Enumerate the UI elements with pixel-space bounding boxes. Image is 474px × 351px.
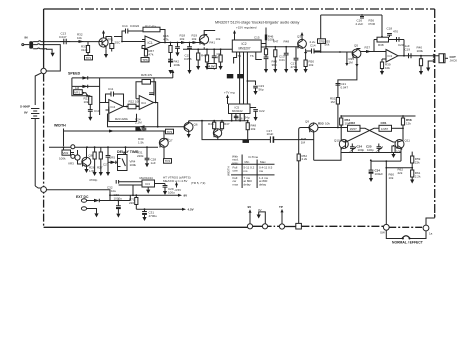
wire 9V rail xyxy=(110,195,178,200)
svg-text:SW: SW xyxy=(380,231,385,235)
svg-text:100k: 100k xyxy=(130,163,137,167)
resistor R57 xyxy=(393,145,395,146)
svg-text:1000u: 1000u xyxy=(114,196,123,200)
svg-text:CR2: CR2 xyxy=(349,121,355,125)
resistor R44 xyxy=(220,49,222,55)
resistor R35 pulldown xyxy=(346,52,348,56)
arrow width xyxy=(109,130,115,133)
svg-text:R23 220k: R23 220k xyxy=(115,117,128,121)
svg-text:1M: 1M xyxy=(331,100,336,104)
svg-text:27k: 27k xyxy=(164,137,169,141)
ground Q1 emitter xyxy=(105,49,107,54)
capacitor C44 xyxy=(106,147,111,174)
svg-text:R28 47k: R28 47k xyxy=(141,73,153,77)
resistor R38 box xyxy=(374,39,404,41)
node mix xyxy=(339,51,341,53)
svg-text:9V: 9V xyxy=(248,205,252,209)
pot VR4 box xyxy=(125,147,127,154)
resistor R58 xyxy=(402,116,404,118)
svg-text:C22: C22 xyxy=(259,109,265,113)
capacitor C41 xyxy=(212,49,217,66)
test point TP1 box xyxy=(85,56,93,60)
svg-text:2.2u: 2.2u xyxy=(310,40,316,44)
transistor Q10 xyxy=(339,140,348,149)
svg-text:4.5V: 4.5V xyxy=(188,208,194,212)
capacitor C27 xyxy=(119,182,142,185)
svg-text:100k: 100k xyxy=(174,63,181,67)
ground ext dc xyxy=(94,213,98,217)
capacitor C30 xyxy=(118,200,120,202)
transistor Q6 xyxy=(184,123,193,132)
emitter resistor R50 xyxy=(305,49,307,54)
IC2 MN3207 xyxy=(232,40,261,52)
wire emitter out xyxy=(306,50,312,52)
enclosure border left xyxy=(43,9,45,68)
svg-text:-4.5V: -4.5V xyxy=(174,188,181,192)
svg-text:S-006P: S-006P xyxy=(20,105,30,109)
ground R40 xyxy=(419,71,423,75)
svg-text:100k: 100k xyxy=(59,157,66,161)
bus delay bias xyxy=(49,146,136,148)
svg-text:R46: R46 xyxy=(208,122,214,126)
svg-text:IC3: IC3 xyxy=(145,182,150,186)
resistor R21 xyxy=(89,96,92,104)
power arrow IC5 xyxy=(227,97,229,104)
svg-text:WIDTH: WIDTH xyxy=(54,124,66,128)
node feedback junction xyxy=(320,51,322,53)
wire lfo out long xyxy=(108,114,185,127)
svg-text:2SC: 2SC xyxy=(115,41,122,45)
pin stub 1 xyxy=(234,52,237,64)
resistor R51 xyxy=(336,98,339,105)
enclosure border right xyxy=(434,9,436,218)
svg-text:1.5k: 1.5k xyxy=(89,169,95,173)
diode CR6 xyxy=(87,200,94,202)
svg-text:D-Time: D-Time xyxy=(249,155,259,159)
svg-text:100p: 100p xyxy=(358,148,365,152)
resistor R45a xyxy=(213,121,215,123)
svg-text:2.2k: 2.2k xyxy=(302,157,308,161)
svg-text:IN: IN xyxy=(25,36,28,40)
svg-text:390: 390 xyxy=(272,63,277,67)
capacitor C21 0.047 xyxy=(336,84,341,86)
svg-text:10u: 10u xyxy=(111,189,116,193)
capacitor C17b 2.2u xyxy=(312,49,321,54)
wire osc rail xyxy=(341,115,415,117)
ground Q8 xyxy=(84,169,88,173)
wire IC3 out xyxy=(155,183,166,185)
pin stub 7 xyxy=(256,52,262,60)
svg-text:1M: 1M xyxy=(349,60,354,64)
svg-text:Max: Max xyxy=(260,160,266,164)
ground C10 xyxy=(88,117,92,121)
svg-text:pots:: pots: xyxy=(232,161,239,165)
pot VR3 xyxy=(75,155,80,160)
ground input xyxy=(51,53,55,57)
svg-text:10k: 10k xyxy=(309,63,314,67)
wire width top xyxy=(64,129,135,147)
svg-text:2.2k: 2.2k xyxy=(415,174,421,178)
svg-text:10k: 10k xyxy=(216,37,221,41)
pot VR2 width xyxy=(62,150,71,155)
svg-text:10k: 10k xyxy=(84,100,89,104)
svg-text:2.2uF: 2.2uF xyxy=(356,22,364,26)
switch lever xyxy=(402,236,410,239)
pin stubs IC5 xyxy=(232,114,245,121)
power arrow IC2 xyxy=(234,33,236,40)
svg-text:ms: ms xyxy=(259,169,263,173)
svg-text:WIDTH: WIDTH xyxy=(227,166,231,176)
wire R58b top xyxy=(411,151,413,153)
svg-text:R47: R47 xyxy=(273,39,279,43)
svg-text:100p: 100p xyxy=(367,148,374,152)
svg-text:100k: 100k xyxy=(417,49,424,53)
svg-text:1.5k: 1.5k xyxy=(138,140,144,144)
svg-text:(TR 5, 7,9): (TR 5, 7,9) xyxy=(191,181,205,185)
svg-text:C14: C14 xyxy=(122,24,128,28)
svg-text:9V: 9V xyxy=(184,194,188,198)
svg-text:10k: 10k xyxy=(251,127,256,131)
svg-text:0.047: 0.047 xyxy=(341,85,349,89)
svg-text:VR2: VR2 xyxy=(63,151,69,155)
clock line pin 4 xyxy=(243,52,245,104)
op-amp IC1a xyxy=(145,36,161,49)
enclosure border bottom xyxy=(44,226,263,227)
up arrow lfo xyxy=(172,72,174,78)
svg-text:IC1: IC1 xyxy=(148,41,153,45)
svg-text:+15V regulated: +15V regulated xyxy=(236,26,257,30)
ext dc jack contacts xyxy=(81,199,86,203)
svg-text:22k: 22k xyxy=(415,160,420,164)
transistor Q8 xyxy=(82,157,91,166)
svg-text:IC4: IC4 xyxy=(141,101,146,105)
svg-text:JACK: JACK xyxy=(450,59,458,63)
svg-text:+7V reg: +7V reg xyxy=(224,91,235,95)
capacitor C40 xyxy=(175,43,180,53)
svg-text:Q9: Q9 xyxy=(305,120,309,124)
svg-text:1uF: 1uF xyxy=(405,44,410,48)
capacitor C34 electrolytic xyxy=(369,161,374,170)
svg-text:470: 470 xyxy=(393,30,398,34)
svg-text:R43: R43 xyxy=(201,54,207,58)
svg-text:IC1: IC1 xyxy=(388,54,393,58)
resistor R26 xyxy=(94,147,96,152)
capacitor C16 2.2uF xyxy=(361,14,363,16)
transistor Q3 xyxy=(301,35,303,40)
resistor R41 xyxy=(197,49,199,53)
svg-text:C10: C10 xyxy=(94,109,100,113)
op-amp IC4a xyxy=(109,100,124,114)
wire to Q4 xyxy=(340,51,353,53)
svg-text:DELAY TIME: DELAY TIME xyxy=(117,150,139,154)
svg-text:T6: T6 xyxy=(250,54,254,58)
ground width cap xyxy=(137,128,139,131)
wire 4.5V rail xyxy=(136,208,182,210)
svg-text:47k: 47k xyxy=(149,52,154,56)
output jack J2 xyxy=(433,54,434,62)
resistor R16 xyxy=(170,43,172,46)
wire battery branch xyxy=(35,73,41,105)
svg-text:CR1: CR1 xyxy=(381,121,387,125)
svg-text:1N5?: 1N5? xyxy=(381,127,389,131)
IC3 MAX1044 xyxy=(142,180,155,187)
resistor R67 xyxy=(142,46,146,50)
svg-text:POR: POR xyxy=(369,22,376,26)
svg-text:R38: R38 xyxy=(378,43,384,47)
svg-text:MN3102: MN3102 xyxy=(232,109,243,113)
clock line pin 6 xyxy=(246,52,248,104)
svg-text:ccw: ccw xyxy=(233,169,239,173)
wire BBD outputs xyxy=(261,44,266,48)
capacitor C23 decouple xyxy=(247,80,249,82)
resistor R54 xyxy=(340,116,342,118)
svg-text:220k: 220k xyxy=(137,154,144,158)
svg-text:4.7k: 4.7k xyxy=(163,37,169,41)
svg-text:delay: delay xyxy=(244,182,252,186)
svg-text:max: max xyxy=(233,182,239,186)
transistor Q9 xyxy=(309,123,318,132)
svg-text:TP2: TP2 xyxy=(165,159,171,163)
ground R16 xyxy=(168,70,172,74)
op-amp IC4b xyxy=(139,96,154,110)
svg-text:VR1: VR1 xyxy=(74,91,80,95)
svg-text:C27: C27 xyxy=(103,163,109,167)
svg-text:TP1: TP1 xyxy=(86,56,92,60)
svg-text:Q7: Q7 xyxy=(169,139,173,143)
svg-text:Min: Min xyxy=(245,160,250,164)
capacitor C28 xyxy=(145,147,150,163)
svg-text:1N5?: 1N5? xyxy=(350,127,358,131)
4.5V arrow xyxy=(182,208,186,211)
resistor R45b xyxy=(221,121,223,123)
svg-text:Q6: Q6 xyxy=(194,123,198,127)
capacitor C14 feedback xyxy=(122,31,143,42)
svg-text:C15: C15 xyxy=(254,36,260,40)
svg-text:ms: ms xyxy=(244,169,248,173)
ground R59b xyxy=(410,180,414,184)
svg-text:C18: C18 xyxy=(387,27,393,31)
op-amp IC1b xyxy=(386,50,398,63)
diode CR4 xyxy=(82,85,87,88)
diode CR1 box xyxy=(379,125,392,131)
test point TP5 box xyxy=(318,39,326,44)
pad square clock xyxy=(296,223,302,229)
capacitor C31 xyxy=(142,209,147,211)
test point 3 circle xyxy=(279,224,284,229)
capacitor C19 out xyxy=(409,53,412,58)
svg-text:T5: T5 xyxy=(228,75,232,79)
svg-text:4.5V: 4.5V xyxy=(209,65,215,69)
svg-text:Q8: Q8 xyxy=(89,154,93,158)
svg-text:10k: 10k xyxy=(77,36,82,40)
svg-text:10k: 10k xyxy=(325,121,330,125)
IC5 MN3102 xyxy=(229,104,251,114)
arrow 17.5V xyxy=(176,185,178,188)
pot VR1 1M speed xyxy=(72,86,90,95)
svg-text:10k: 10k xyxy=(192,37,197,41)
svg-text:220: 220 xyxy=(129,201,134,205)
svg-text:MN3207: MN3207 xyxy=(239,47,251,51)
wire IC4b out xyxy=(154,103,158,127)
node battery junction xyxy=(41,68,46,73)
resistor R71 xyxy=(135,195,137,197)
resistor R37 xyxy=(366,50,372,53)
capacitor C12 xyxy=(149,93,154,95)
9V arrow xyxy=(178,194,182,197)
resistor R27 xyxy=(100,147,102,152)
wire Q7 emitter xyxy=(163,148,165,159)
svg-text:TR1: TR1 xyxy=(108,38,114,42)
transistor Q11 xyxy=(395,140,404,149)
svg-text:56p: 56p xyxy=(259,87,264,91)
svg-text:0.056: 0.056 xyxy=(184,57,192,61)
svg-text:TP: TP xyxy=(279,205,283,209)
wire bias row xyxy=(386,167,412,169)
svg-text:1a: 1a xyxy=(429,232,433,236)
transistor Q2 xyxy=(199,35,208,44)
svg-text:R17 41k: R17 41k xyxy=(145,25,157,29)
diode CR5 xyxy=(108,161,111,163)
test point 9V circle xyxy=(247,224,252,229)
svg-text:NORMAL / EFFECT: NORMAL / EFFECT xyxy=(392,241,424,245)
wire feedback top xyxy=(321,14,382,16)
capacitor C42 xyxy=(397,37,400,42)
bold tag T5 xyxy=(243,140,250,143)
enclosure border top xyxy=(44,8,70,10)
svg-text:1M: 1M xyxy=(301,140,306,144)
wire Q4 collector to opamp xyxy=(360,51,382,53)
svg-text:T5: T5 xyxy=(238,54,242,58)
svg-text:12k: 12k xyxy=(406,121,411,125)
wire IC3 feed xyxy=(133,185,142,195)
wire cross coupling xyxy=(344,128,396,142)
svg-text:IC4: IC4 xyxy=(111,105,116,109)
box label VR ref xyxy=(166,129,174,134)
diode CR2 box xyxy=(348,125,361,131)
svg-text:MAX1044: MAX1044 xyxy=(140,176,154,180)
capacitor C13 0.047 xyxy=(60,39,70,44)
svg-text:10k: 10k xyxy=(385,66,390,70)
svg-text:2.2M: 2.2M xyxy=(135,121,142,125)
node 4.5V box xyxy=(208,64,217,69)
wire opamp out xyxy=(161,42,201,44)
svg-text:R47: R47 xyxy=(224,122,230,126)
ext dc jack J3 xyxy=(41,187,47,193)
capacitor C11 feedback xyxy=(106,94,124,106)
svg-text:delay: delay xyxy=(259,182,267,186)
wire osc emitter rail xyxy=(341,147,401,153)
svg-text:Q10: Q10 xyxy=(334,139,340,143)
resistor R42b xyxy=(206,49,208,55)
svg-text:22k: 22k xyxy=(398,171,403,175)
capacitor C29 xyxy=(163,184,168,192)
footswitch SW1a xyxy=(383,224,389,230)
svg-text:Q5: Q5 xyxy=(354,44,358,48)
resistor R52 xyxy=(297,154,300,161)
capacitor C43 xyxy=(134,127,146,131)
svg-text:10k: 10k xyxy=(180,37,185,41)
svg-text:0.047: 0.047 xyxy=(59,35,67,39)
svg-text:R27: R27 xyxy=(97,166,103,170)
svg-text:470p: 470p xyxy=(291,65,298,69)
wire to opamp xyxy=(122,41,145,43)
resistor R48 clk xyxy=(247,121,249,123)
svg-text:R41: R41 xyxy=(210,41,216,45)
svg-text:56k: 56k xyxy=(325,43,330,47)
svg-text:TP6: TP6 xyxy=(142,58,148,62)
clock line pin 2 xyxy=(239,52,241,104)
svg-text:MN3207 512½-stage 'Bucket-Brig: MN3207 512½-stage 'Bucket-Brigade' audio… xyxy=(215,21,300,25)
resistor R33 xyxy=(87,42,89,46)
wire Q4 emitter to C21 xyxy=(338,59,357,128)
test point 2 circle xyxy=(262,224,267,229)
svg-text:SPEED: SPEED xyxy=(68,72,81,76)
wire osc out to switch column xyxy=(385,161,387,224)
diode CR3 xyxy=(82,76,87,79)
svg-text:C11: C11 xyxy=(108,87,114,91)
transistor Q4 xyxy=(352,49,361,58)
wire between opamps xyxy=(123,106,139,108)
svg-text:C20: C20 xyxy=(398,43,404,47)
resistor R32 arrow xyxy=(79,40,85,43)
transistor Q7 xyxy=(159,138,168,147)
resistor R39 xyxy=(381,59,383,62)
svg-text:4700p: 4700p xyxy=(89,178,98,182)
transistor Q5 xyxy=(213,129,221,137)
svg-text:T6: T6 xyxy=(238,75,242,79)
footswitch SW1b xyxy=(423,225,429,231)
wire lfo bottom loop xyxy=(109,107,137,122)
svg-text:10k: 10k xyxy=(389,176,394,180)
resistor R59b xyxy=(411,168,413,170)
resistor R58b column xyxy=(411,152,413,156)
svg-text:10uF: 10uF xyxy=(267,132,274,136)
wire Q6 collector xyxy=(189,121,248,123)
svg-text:34p: 34p xyxy=(245,116,250,120)
svg-text:100uF: 100uF xyxy=(375,172,384,176)
svg-text:Q11: Q11 xyxy=(405,139,411,143)
resistor R17 box xyxy=(143,27,160,32)
feedback network C18 xyxy=(381,15,383,37)
svg-text:TP3: TP3 xyxy=(167,130,173,134)
svg-text:R48: R48 xyxy=(284,39,290,43)
wire lfo top xyxy=(72,78,154,115)
svg-text:0V: 0V xyxy=(258,208,262,212)
transistor Q1 xyxy=(99,38,108,47)
svg-text:0.0022: 0.0022 xyxy=(130,24,140,28)
test point box TP2 xyxy=(164,159,172,164)
trimmer capacitor C25 xyxy=(377,144,382,153)
resistor R18 arrow xyxy=(181,41,187,44)
svg-text:Q3: Q3 xyxy=(297,35,301,39)
capacitor C15 0.056 xyxy=(187,43,192,71)
resistor R28 feedback box xyxy=(136,82,142,99)
wire down-right xyxy=(202,121,314,140)
ground out jack xyxy=(428,61,435,68)
trimmer capacitor C24 xyxy=(350,144,355,153)
svg-text:IC2: IC2 xyxy=(242,42,247,46)
capacitor C10 xyxy=(88,110,93,118)
wire input rail xyxy=(47,41,99,43)
svg-text:VR3: VR3 xyxy=(68,162,74,166)
wire post filter rail xyxy=(266,46,298,48)
svg-text:1uF: 1uF xyxy=(151,161,156,165)
capacitor C17 470p xyxy=(294,47,299,69)
wire sw hook xyxy=(426,218,435,225)
svg-text:312k: 312k xyxy=(81,48,88,52)
svg-text:4700u: 4700u xyxy=(149,214,158,218)
svg-text:R37: R37 xyxy=(365,46,371,50)
